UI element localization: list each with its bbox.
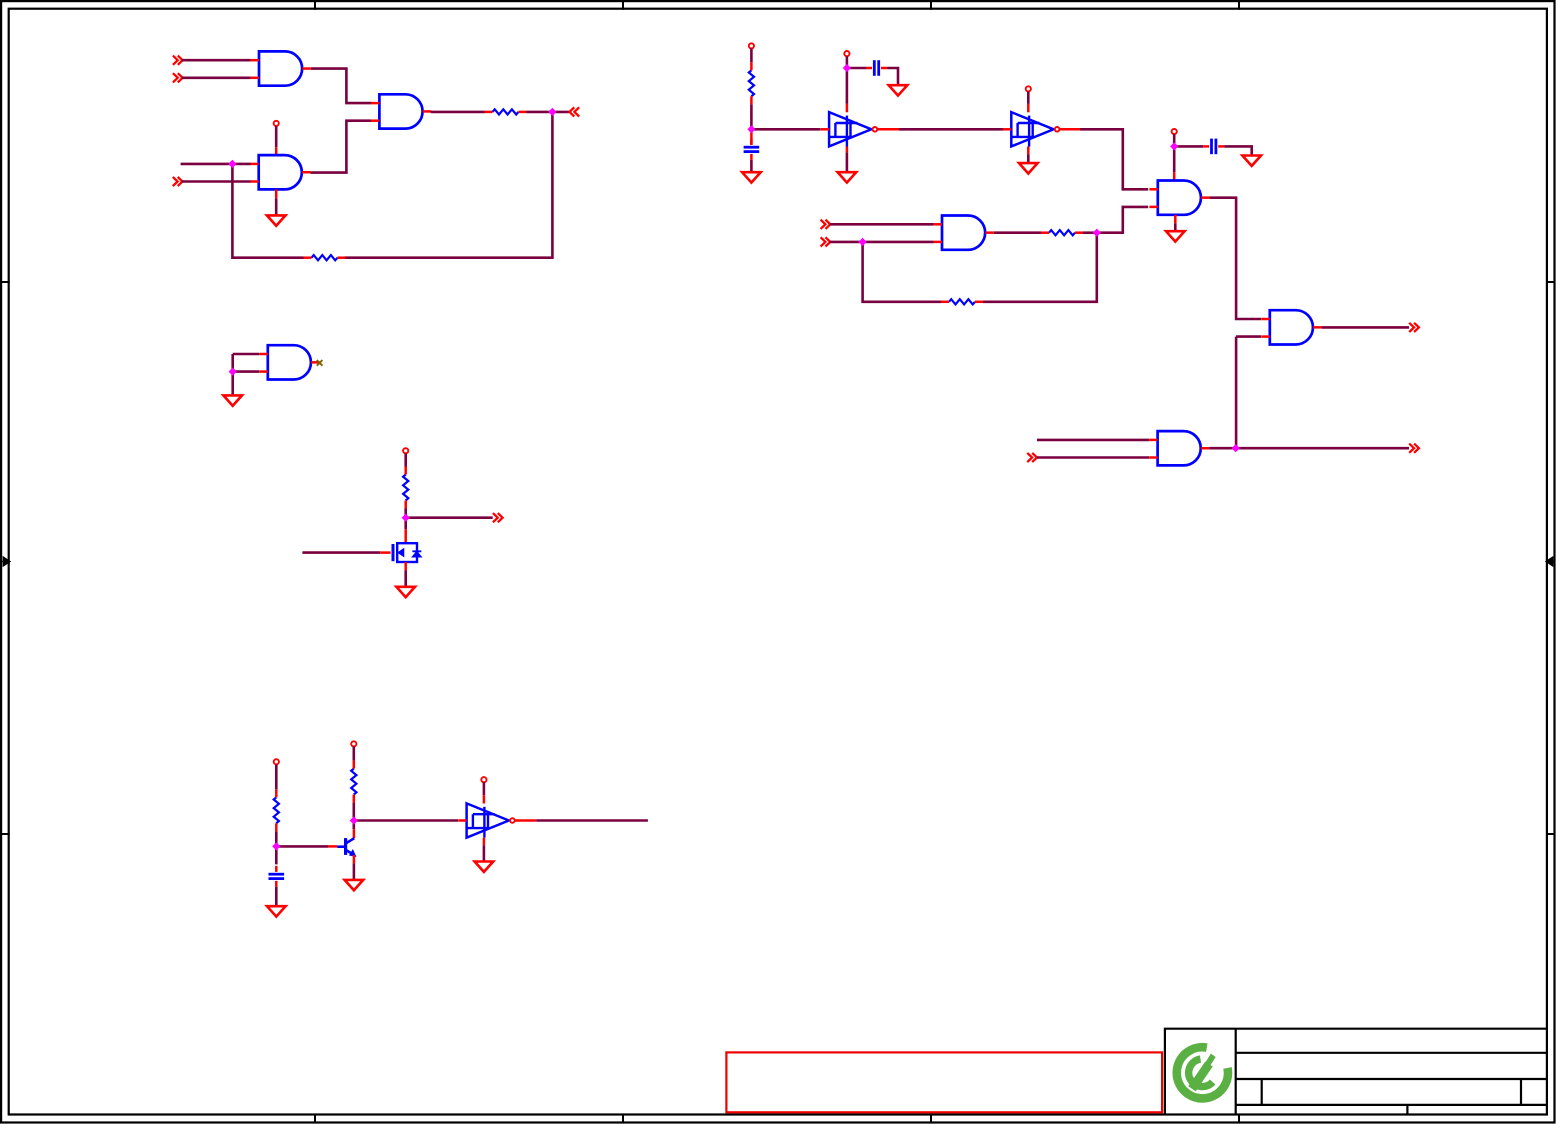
resistor R3 feedback: [941, 299, 983, 304]
wire C5 to ground: [275, 887, 278, 906]
capacitor C4: [1203, 139, 1224, 155]
input port chevron (G1 in A): [173, 56, 183, 65]
wire G4 in2 down to node: [1235, 337, 1238, 449]
input port chevron (G2 in B): [173, 177, 183, 186]
wire G5 input1: [1037, 439, 1149, 442]
wire R to drain node: [404, 509, 407, 518]
wire C2 to ground: [750, 160, 753, 172]
mosfet gate stub: [380, 551, 391, 554]
AND gate G1: [251, 51, 311, 85]
wire G1 input B: [182, 77, 251, 80]
Q1 collector stub: [353, 829, 356, 838]
mosfet source stub: [404, 562, 407, 570]
junction G6 in2: [859, 239, 866, 246]
wire node to G7 in2: [1097, 207, 1148, 233]
schematic comment box (red rectangle): [726, 1052, 1162, 1112]
capacitor C5: [269, 866, 285, 887]
wire G6 out to R2: [994, 231, 1041, 234]
company logo: [1177, 1047, 1228, 1098]
output port chevron (mosfet): [493, 513, 503, 522]
power pin of R1: [749, 43, 754, 48]
AND gate G3: [371, 94, 431, 128]
wire feedback to G6 in2: [863, 242, 941, 302]
input port chevron (G5 in B): [1027, 453, 1037, 462]
junction G7 vcc: [1171, 143, 1178, 150]
wire G2 vcc: [275, 126, 278, 147]
input port chevron (G6 in B): [821, 237, 831, 246]
transistor Q2 (N-MOSFET): [393, 543, 421, 562]
capacitor C3: [866, 60, 887, 76]
AND gate G8 (unused inputs): [259, 345, 319, 379]
input port chevron (G6 in A): [821, 220, 831, 229]
Q1 base stub: [328, 845, 337, 848]
wire vcc to C3: [847, 67, 866, 70]
B3 out stub: [515, 819, 536, 822]
junction G2 in1: [229, 161, 236, 168]
wire vcc to C4: [1174, 145, 1203, 148]
wire node to port: [1236, 447, 1409, 450]
wire node down to Q1: [352, 821, 355, 830]
wire G2 input1: [181, 163, 251, 166]
G2 gnd pin stub: [275, 189, 278, 198]
B1 out stub: [878, 128, 899, 131]
ground below C2: [742, 172, 761, 182]
junction B1 vcc: [844, 65, 851, 72]
junction base node: [273, 843, 280, 850]
wire node to port: [552, 111, 569, 114]
B2 out stub: [1060, 128, 1080, 131]
resistor R4: [274, 789, 279, 831]
wire B2 out to G7 in1: [1080, 129, 1148, 189]
wire R1 to B1 input node: [750, 104, 753, 129]
wire G8 in1: [233, 353, 260, 356]
power pin of R (mosfet drain): [403, 448, 408, 453]
ground below Q1: [345, 880, 364, 890]
wire G4 in2: [1236, 335, 1261, 338]
ground below C3: [889, 85, 908, 95]
G7 gnd stub: [1174, 215, 1177, 223]
junction G5 out: [1232, 445, 1239, 452]
wire B1 to ground: [846, 153, 849, 173]
resistor R5: [351, 761, 356, 803]
wire B3 to ground: [483, 845, 486, 861]
VCC pin of B3: [481, 777, 486, 782]
ground below B2: [1019, 163, 1038, 173]
wire B3 vcc pin: [483, 782, 486, 795]
junction G8 inputs: [229, 368, 236, 375]
junction B1 input: [748, 126, 755, 133]
G2 vcc pin stub: [275, 147, 278, 155]
transistor Q1 (NPN): [337, 838, 355, 856]
wire G8 tie to ground: [231, 354, 234, 395]
wire R4 to base node: [275, 831, 278, 846]
B2 gnd stub: [1027, 147, 1030, 155]
junction feedback node: [549, 109, 556, 116]
wire source to ground: [404, 570, 407, 587]
wire pin to R4: [275, 764, 278, 789]
VCC pin of G7: [1172, 129, 1177, 134]
ground below G7: [1166, 231, 1185, 241]
wire G3 out to R: [431, 111, 485, 114]
B3 gnd stub: [483, 838, 486, 846]
wire G1 input A: [182, 59, 251, 62]
power pin of R5: [351, 741, 356, 746]
junction mosfet drain: [402, 514, 409, 521]
wire G7 vcc pin: [1173, 134, 1176, 143]
resistor R mosfet: [403, 467, 408, 509]
right centering arrow: [1546, 557, 1555, 565]
ground below C5: [267, 906, 286, 916]
wire feedback right/bottom: [345, 112, 553, 258]
wire feedback left/up: [232, 164, 303, 258]
wire pin to R: [404, 453, 407, 466]
wire G2 input2: [182, 180, 251, 183]
wire B1 vcc pin: [846, 56, 849, 65]
wire R5 to collector node: [352, 803, 355, 821]
wire feedback down/left: [983, 233, 1097, 302]
Q1 emitter stub: [353, 855, 356, 864]
B2 vcc stub: [1027, 104, 1030, 112]
wire vcc down to B1: [846, 68, 849, 104]
wire B3 output: [536, 819, 648, 822]
input port chevron (G1 in B): [173, 73, 183, 82]
wire drain to port: [406, 516, 493, 519]
ground below G2: [267, 215, 286, 225]
ground below B1: [838, 172, 857, 182]
wire pin to R5: [352, 747, 355, 761]
AND gate G4: [1261, 310, 1321, 344]
VCC pin of B1: [844, 51, 849, 56]
wire G2 out to G3 in2: [310, 121, 371, 173]
wire C3 to ground: [887, 68, 898, 85]
wire G7 out to G4 in1: [1210, 198, 1262, 319]
wire B2 vcc pin: [1027, 92, 1030, 104]
left centering arrow: [1, 557, 10, 565]
wire G8 in2: [233, 370, 260, 373]
resistor R2: [1041, 230, 1083, 235]
G7 vcc stub: [1173, 172, 1176, 180]
wire node to B1: [751, 128, 820, 131]
ground below mosfet: [396, 587, 415, 597]
wire node to Q1 base: [276, 845, 328, 848]
wire B2 to ground: [1027, 154, 1030, 163]
wire C4 to ground: [1224, 146, 1252, 155]
ground below B3: [475, 862, 494, 872]
wire node down to C5: [275, 846, 278, 864]
B1 vcc stub: [846, 104, 849, 112]
wire node to B3 input: [354, 819, 458, 822]
junction G6 feedback node: [1093, 229, 1100, 236]
wire G2 gnd: [275, 198, 278, 215]
AND gate G2: [250, 155, 310, 189]
C2 top stub: [750, 132, 753, 145]
wire vcc down to G7: [1173, 146, 1176, 172]
output port chevron (top-left): [570, 107, 580, 116]
resistor R top-left: [485, 109, 527, 114]
wire R2 to node: [1083, 231, 1097, 234]
junction collector node: [350, 817, 357, 824]
capacitor C2: [744, 139, 760, 160]
wire G6 input2: [830, 241, 934, 244]
wire G5 input2: [1037, 456, 1149, 459]
AND gate G7: [1149, 181, 1209, 215]
wire R to node: [527, 111, 553, 114]
wire emitter to ground: [353, 863, 356, 880]
AND gate G5: [1149, 431, 1209, 465]
wire pin to R1: [750, 49, 753, 63]
wire to mosfet gate: [302, 551, 380, 554]
wire G1 out to G3 in1: [311, 69, 371, 104]
no-connect X on G8 output: [317, 360, 323, 366]
AND gate G6: [934, 216, 994, 250]
wire B1 out to B2 in: [899, 128, 1003, 131]
schmitt buffer U3: [458, 803, 515, 837]
wire G7 to ground: [1174, 223, 1177, 231]
mosfet drain stub: [404, 529, 407, 543]
B1 gnd stub: [846, 147, 849, 153]
ground below G8: [223, 395, 242, 405]
VCC pin of B2: [1026, 86, 1031, 91]
power pin of R4: [274, 759, 279, 764]
resistor R1: [749, 62, 754, 104]
ground below C4: [1242, 156, 1261, 166]
resistor R feedback top-left: [304, 255, 346, 260]
B3 vcc stub: [483, 795, 486, 803]
output port chevron (G4): [1409, 323, 1419, 332]
VCC pin of G2: [274, 121, 279, 126]
wire G5 out to node: [1209, 447, 1235, 450]
wire G6 input1: [830, 223, 934, 226]
output port chevron (G5): [1409, 444, 1419, 453]
schmitt buffer U2: [1003, 112, 1059, 146]
wire drain down: [404, 518, 407, 530]
wire G4 out to port: [1322, 326, 1409, 329]
title block frame: [1165, 1029, 1546, 1114]
schmitt buffer U1: [821, 112, 878, 146]
